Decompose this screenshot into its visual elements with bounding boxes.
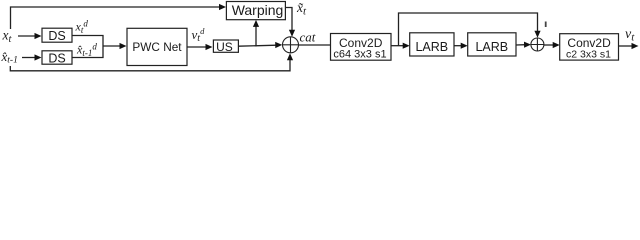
wire output v_t [619, 43, 639, 49]
node cat concat circle [283, 37, 299, 53]
wire x^hat_t-1 into DS2 [22, 54, 42, 60]
wire PWC Net into US [187, 44, 213, 50]
wire x_t into DS1 [18, 33, 42, 39]
svg-text:PWC Net: PWC Net [132, 40, 182, 54]
block LARB1 [410, 33, 454, 56]
svg-text:DS: DS [48, 29, 65, 43]
wire DS outputs merging into PWC Net [72, 36, 127, 58]
wire up-arrow from US output into Warping bottom [253, 20, 259, 47]
wire Conv2D c64 to LARB1 with skip junction [391, 43, 410, 49]
svg-text:LARB: LARB [475, 40, 508, 54]
node adder plus circle [531, 38, 544, 51]
wire top from x_t riser to Warping [11, 4, 227, 29]
wire US into cat circle [238, 42, 282, 48]
svg-text:US: US [216, 40, 233, 54]
wire cat circle to Conv2D c64 [299, 44, 331, 46]
block DS1 [42, 28, 72, 43]
block Conv2D c64 3x3 s1 [331, 34, 392, 61]
wire skip connection over LARBs into adder [399, 13, 541, 46]
block PWC Net [127, 28, 187, 65]
svg-text:c2 3x3 s1: c2 3x3 s1 [566, 49, 611, 61]
block DS2 [42, 51, 72, 66]
block Warping [226, 2, 285, 20]
svg-text:LARB: LARB [415, 40, 448, 54]
wire Warping output down to cat circle [285, 8, 292, 32]
svg-text:DS: DS [48, 51, 65, 65]
wire LARB1 to LARB2 [454, 43, 468, 49]
block Conv2D c2 3x3 s1 [560, 34, 619, 61]
block LARB2 [468, 33, 516, 56]
wire LARB2 to adder [516, 42, 531, 48]
svg-text:c64 3x3 s1: c64 3x3 s1 [333, 49, 386, 61]
svg-text:Warping: Warping [232, 2, 284, 18]
wire bottom from x^hat_t-1 riser to cat circle bottom [10, 53, 293, 71]
node skip tick mark [545, 22, 547, 28]
svg-text:cat: cat [300, 30, 316, 45]
block US [213, 40, 238, 54]
wire adder to Conv2D c2 [544, 42, 560, 48]
